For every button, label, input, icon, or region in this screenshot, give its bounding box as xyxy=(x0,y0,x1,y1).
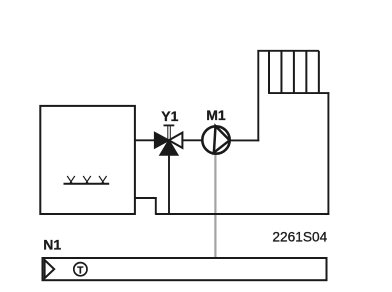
svg-text:M1: M1 xyxy=(206,107,226,123)
svg-text:2261S04: 2261S04 xyxy=(272,230,327,245)
svg-text:N1: N1 xyxy=(43,237,61,253)
svg-text:Y1: Y1 xyxy=(161,108,178,124)
svg-text:T: T xyxy=(77,265,83,276)
